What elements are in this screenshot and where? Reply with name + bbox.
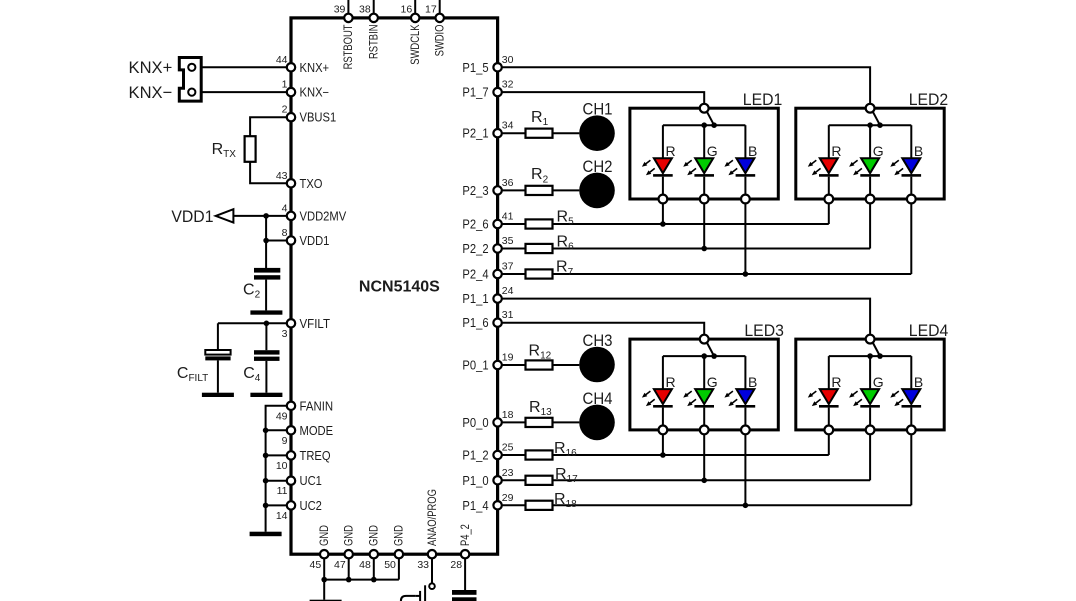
svg-text:28: 28 [450, 559, 462, 571]
svg-text:18: 18 [502, 409, 514, 421]
svg-text:44: 44 [276, 54, 288, 66]
svg-text:B: B [914, 143, 923, 159]
svg-text:KNX−: KNX− [129, 83, 173, 102]
svg-text:10: 10 [276, 460, 288, 472]
svg-text:G: G [707, 143, 718, 159]
svg-text:TREQ: TREQ [300, 449, 331, 463]
svg-text:36: 36 [502, 177, 514, 189]
svg-text:LED2: LED2 [909, 90, 949, 109]
svg-text:NCN5140S: NCN5140S [359, 279, 440, 296]
svg-text:1: 1 [282, 79, 288, 91]
svg-text:38: 38 [359, 4, 371, 16]
svg-text:48: 48 [359, 559, 371, 571]
svg-text:29: 29 [502, 492, 514, 504]
svg-text:P1_0: P1_0 [462, 474, 488, 488]
svg-text:P0_1: P0_1 [462, 359, 488, 373]
svg-text:23: 23 [502, 467, 514, 479]
svg-text:45: 45 [310, 559, 322, 571]
svg-text:41: 41 [502, 211, 514, 223]
svg-text:G: G [873, 374, 884, 390]
svg-text:ANAO/PROG: ANAO/PROG [425, 489, 439, 546]
svg-text:47: 47 [334, 559, 346, 571]
svg-text:3: 3 [282, 328, 288, 340]
svg-text:GND: GND [342, 525, 356, 546]
svg-text:P1_4: P1_4 [462, 499, 488, 513]
svg-text:P1_5: P1_5 [462, 61, 488, 75]
svg-text:R: R [666, 374, 676, 390]
svg-text:50: 50 [384, 559, 396, 571]
svg-text:TXO: TXO [300, 177, 323, 191]
svg-text:P2_6: P2_6 [462, 218, 488, 232]
svg-text:49: 49 [276, 410, 288, 422]
svg-text:16: 16 [401, 4, 413, 16]
svg-text:KNX−: KNX− [300, 86, 330, 100]
svg-text:R: R [666, 143, 676, 159]
svg-text:CH1: CH1 [583, 100, 613, 119]
svg-text:25: 25 [502, 442, 514, 454]
svg-text:P2_4: P2_4 [462, 268, 488, 282]
svg-text:35: 35 [502, 235, 514, 247]
svg-text:RSTBOUT: RSTBOUT [341, 24, 355, 69]
svg-text:P2_1: P2_1 [462, 127, 488, 141]
svg-text:VDD1: VDD1 [300, 234, 330, 248]
svg-text:30: 30 [502, 54, 514, 66]
svg-text:KNX+: KNX+ [300, 61, 330, 75]
svg-text:P4_2: P4_2 [458, 524, 472, 546]
svg-text:14: 14 [276, 510, 288, 522]
svg-text:P0_0: P0_0 [462, 416, 488, 430]
svg-text:24: 24 [502, 285, 514, 297]
svg-text:GND: GND [367, 525, 381, 546]
svg-text:G: G [873, 143, 884, 159]
svg-text:KNX+: KNX+ [129, 58, 173, 77]
svg-text:4: 4 [282, 202, 288, 214]
svg-text:SWDIO: SWDIO [433, 25, 447, 57]
svg-text:RSTBIN: RSTBIN [367, 25, 381, 60]
svg-text:19: 19 [502, 352, 514, 364]
svg-text:P2_2: P2_2 [462, 242, 488, 256]
svg-text:2: 2 [282, 104, 288, 116]
svg-text:CH3: CH3 [583, 331, 613, 350]
svg-text:31: 31 [502, 309, 514, 321]
svg-text:34: 34 [502, 120, 514, 132]
svg-text:39: 39 [334, 4, 346, 16]
svg-text:R: R [831, 374, 841, 390]
svg-text:37: 37 [502, 261, 514, 273]
svg-text:LED3: LED3 [744, 321, 784, 340]
svg-text:CH4: CH4 [583, 389, 613, 408]
svg-text:MODE: MODE [300, 424, 334, 438]
svg-text:LED4: LED4 [909, 321, 949, 340]
svg-text:43: 43 [276, 170, 288, 182]
svg-text:B: B [914, 374, 923, 390]
svg-text:GND: GND [392, 525, 406, 546]
svg-text:17: 17 [425, 4, 437, 16]
svg-text:R: R [831, 143, 841, 159]
svg-text:8: 8 [282, 227, 288, 239]
svg-text:GND: GND [317, 525, 331, 546]
svg-text:P1_1: P1_1 [462, 292, 488, 306]
svg-text:UC1: UC1 [300, 474, 322, 488]
svg-text:P1_7: P1_7 [462, 86, 488, 100]
svg-text:VDD2MV: VDD2MV [300, 209, 347, 223]
svg-text:SWDCLK: SWDCLK [408, 25, 422, 65]
svg-text:B: B [748, 374, 757, 390]
svg-text:9: 9 [282, 435, 288, 447]
svg-text:LED1: LED1 [743, 90, 783, 109]
svg-text:32: 32 [502, 79, 514, 91]
svg-text:UC2: UC2 [300, 499, 322, 513]
svg-text:11: 11 [277, 485, 288, 497]
svg-text:G: G [707, 374, 718, 390]
svg-text:VBUS1: VBUS1 [300, 111, 337, 125]
svg-text:P2_3: P2_3 [462, 184, 488, 198]
svg-text:FANIN: FANIN [300, 399, 334, 413]
svg-text:B: B [748, 143, 757, 159]
svg-text:P1_6: P1_6 [462, 316, 488, 330]
svg-text:P1_2: P1_2 [462, 449, 488, 463]
svg-text:33: 33 [417, 559, 429, 571]
svg-text:VDD1: VDD1 [171, 207, 213, 226]
svg-text:VFILT: VFILT [300, 317, 331, 331]
svg-text:CH2: CH2 [583, 157, 613, 176]
